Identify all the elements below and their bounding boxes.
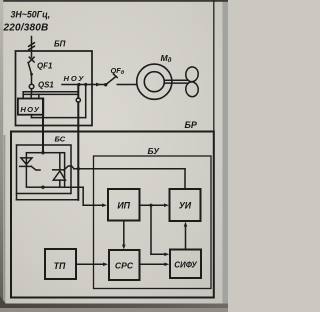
svg-text:УИ: УИ	[179, 201, 192, 211]
svg-text:QS1: QS1	[38, 81, 54, 90]
svg-text:БУ: БУ	[148, 146, 161, 156]
svg-text:НОУ: НОУ	[64, 74, 86, 83]
svg-text:СИФУ: СИФУ	[174, 261, 198, 270]
svg-text:БП: БП	[54, 40, 66, 49]
svg-text:220/380В: 220/380В	[3, 22, 49, 33]
svg-text:QF1: QF1	[37, 61, 52, 70]
svg-text:ИП: ИП	[117, 200, 130, 210]
svg-text:БР: БР	[185, 120, 198, 130]
svg-text:СРС: СРС	[115, 261, 134, 271]
svg-text:3Н~50Гц,: 3Н~50Гц,	[11, 10, 51, 20]
svg-text:БС: БС	[55, 134, 66, 143]
svg-text:ТП: ТП	[54, 261, 66, 271]
svg-text:НОУ: НОУ	[20, 105, 40, 114]
